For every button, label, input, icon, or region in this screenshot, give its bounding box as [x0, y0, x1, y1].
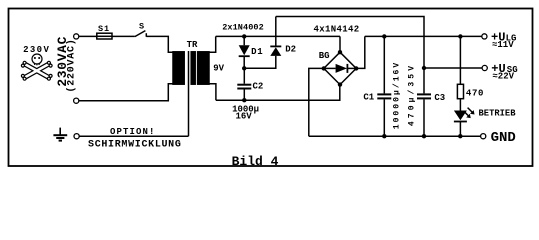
capacitor C3 — [423, 68, 425, 93]
skull warning symbol — [21, 54, 52, 80]
svg-text:GND: GND — [491, 130, 516, 146]
svg-text:2x1N4002: 2x1N4002 — [222, 23, 264, 33]
switch S contact tick — [145, 33, 147, 37]
diode D2 — [270, 47, 281, 56]
svg-text:C1: C1 — [363, 93, 374, 103]
terminal X2 (mains N) — [74, 98, 79, 103]
node dot D1 top — [242, 34, 246, 38]
wire X1 to fuse — [79, 35, 97, 37]
wire AC rail drop to bridge top — [339, 36, 341, 52]
svg-text:TR: TR — [187, 40, 198, 50]
svg-text:4x1N4142: 4x1N4142 — [313, 25, 359, 35]
wire secondary bottom lead — [209, 84, 216, 100]
svg-text:230V: 230V — [23, 45, 50, 55]
svg-text:C2: C2 — [252, 82, 263, 92]
wire USG top rail — [276, 17, 424, 69]
svg-text:S1: S1 — [98, 24, 110, 34]
diode D1 — [243, 36, 245, 45]
wire secondary top lead — [209, 36, 216, 52]
svg-text:(220VAC): (220VAC) — [65, 38, 77, 92]
svg-text:9V: 9V — [213, 64, 224, 74]
svg-text:SCHIRMWICKLUNG: SCHIRMWICKLUNG — [88, 140, 182, 151]
node dot resistor top — [458, 34, 462, 38]
wire bridge DC- to GND rail — [309, 68, 324, 136]
wire ULG to resistor — [459, 36, 461, 84]
terminal GND — [481, 134, 486, 139]
svg-text:BETRIEB: BETRIEB — [479, 109, 517, 119]
terminal X1 (mains L) — [74, 34, 79, 39]
svg-text:OPTION!: OPTION! — [110, 127, 156, 137]
wire AC2 rail — [216, 85, 340, 101]
transformer TR primary winding — [173, 52, 184, 84]
node dot LED bottom — [458, 134, 462, 138]
bridge corner dots — [338, 50, 342, 54]
wire X2 to transformer primary bottom — [79, 84, 173, 101]
capacitor C2 — [243, 68, 245, 83]
node dot C1 bottom — [382, 134, 386, 138]
bridge BG diamond — [324, 52, 356, 84]
svg-text:BG: BG — [319, 51, 330, 61]
node dot C2 bottom — [242, 98, 246, 102]
svg-text:≈22V: ≈22V — [492, 72, 514, 82]
svg-text:470: 470 — [466, 89, 484, 99]
svg-text:C3: C3 — [434, 93, 445, 103]
svg-text:10000µ/16V: 10000µ/16V — [393, 61, 402, 130]
wire bridge DC+ to ULG rail — [356, 36, 365, 68]
LED arrows — [464, 111, 470, 117]
svg-text:≈11V: ≈11V — [492, 40, 514, 50]
switch S blade — [135, 31, 146, 37]
terminal X3 (shield option) — [74, 134, 79, 139]
capacitor C1 — [383, 36, 385, 93]
svg-text:S: S — [139, 22, 144, 32]
node dot USG/C3 — [422, 66, 426, 70]
svg-text:D2: D2 — [285, 45, 296, 55]
border frame — [9, 9, 533, 167]
wire USG row to terminal — [424, 67, 482, 69]
wire GND rail — [309, 135, 481, 137]
svg-text:D1: D1 — [251, 47, 263, 57]
wire ULG rail — [365, 35, 482, 37]
terminal +ULG — [482, 34, 487, 39]
node dot C1 top — [382, 34, 386, 38]
terminal +USG — [482, 65, 487, 70]
transformer TR core bar — [191, 52, 195, 84]
wire X3 to shield winding — [79, 135, 188, 137]
bridge inner diode — [324, 67, 336, 69]
wire resistor to LED — [459, 99, 461, 111]
resistor R 470 — [457, 84, 463, 98]
node dot C3 bottom — [422, 134, 426, 138]
LED BETRIEB — [454, 111, 467, 121]
node dot X (D1 cathode) — [242, 66, 246, 70]
wire switch to transformer primary top — [146, 36, 173, 52]
ground symbol — [53, 128, 67, 141]
svg-text:16V: 16V — [235, 111, 252, 121]
wire fuse to switch — [112, 35, 135, 37]
svg-text:Bild 4: Bild 4 — [232, 154, 279, 169]
wire node X row — [244, 56, 276, 68]
transformer TR secondary winding — [198, 52, 209, 84]
wire AC rail top — [216, 35, 340, 37]
fuse S1 — [97, 33, 112, 39]
svg-text:470µ/35V: 470µ/35V — [408, 63, 417, 126]
transformer TR shield line — [188, 51, 190, 136]
